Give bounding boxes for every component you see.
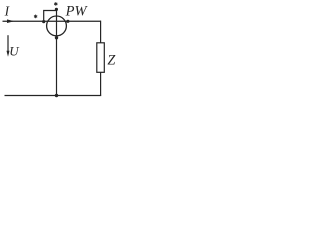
right rail top segment	[100, 21, 102, 44]
junction dot on wire right of meter	[66, 20, 69, 23]
current arrow I	[7, 19, 14, 23]
right rail bottom segment	[100, 72, 102, 95]
svg-text:I: I	[4, 4, 10, 19]
asterisk left terminal	[34, 15, 37, 19]
terminal dot top	[55, 8, 58, 11]
svg-text:U: U	[9, 43, 20, 58]
wattmeter PW circle	[47, 16, 67, 36]
asterisk top terminal	[54, 2, 57, 6]
svg-text:Z: Z	[107, 52, 116, 68]
voltage arrow U	[7, 35, 9, 53]
wire bottom conductor	[5, 95, 102, 97]
wire top conductor	[3, 20, 101, 22]
load impedance Z rectangle	[97, 43, 105, 73]
svg-text:PW: PW	[65, 4, 89, 20]
voltage tap bracket wire	[44, 11, 57, 22]
junction dot bottom rail	[55, 94, 58, 97]
wattmeter voltage coil vertical wire	[56, 9, 58, 96]
terminal dot below circle	[55, 36, 58, 39]
junction dot wire tap	[42, 20, 45, 23]
